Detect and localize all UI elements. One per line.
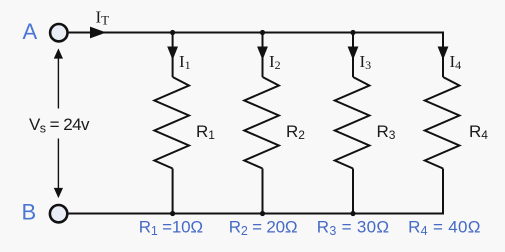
svg-text:A: A <box>23 19 38 44</box>
svg-text:R4 = 40Ω: R4 = 40Ω <box>408 218 481 239</box>
svg-text:R1 =10Ω: R1 =10Ω <box>139 218 203 239</box>
svg-text:R2 = 20Ω: R2 = 20Ω <box>229 218 298 239</box>
svg-text:R3 = 30Ω: R3 = 30Ω <box>317 218 390 239</box>
svg-text:Vs = 24v: Vs = 24v <box>29 115 90 136</box>
svg-text:B: B <box>22 200 37 225</box>
